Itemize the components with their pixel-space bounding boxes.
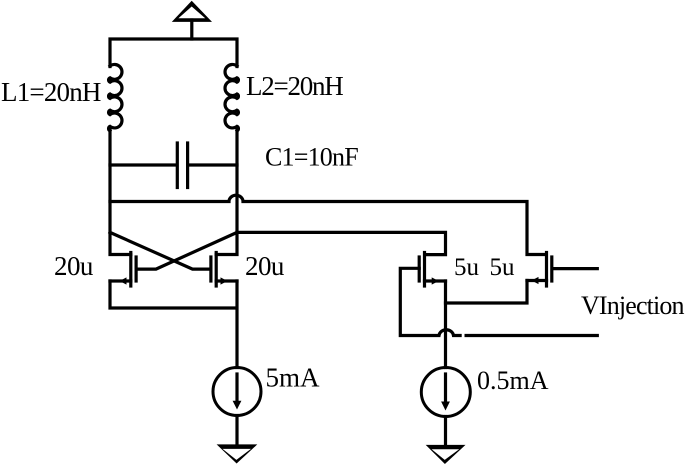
- svg-text:VInjection: VInjection: [581, 291, 685, 320]
- transistor M3: [419, 253, 445, 287]
- wire left rail: [110, 130, 131, 255]
- svg-text:20u: 20u: [54, 251, 94, 281]
- transistor M2: [211, 253, 237, 287]
- transistor M4: [527, 253, 552, 287]
- svg-text:L2=20nH: L2=20nH: [246, 71, 343, 101]
- wire cross-couple M2 gate to node Vp: [110, 232, 210, 269]
- current source I1 5mA: [213, 368, 261, 416]
- current source I2 0.5mA: [421, 368, 470, 417]
- wire M4 source to M3 source: [446, 281, 528, 304]
- svg-text:0.5mA: 0.5mA: [477, 366, 549, 395]
- ground left: [217, 444, 258, 463]
- wire M4 gate stub: [553, 267, 597, 270]
- wire top rail VDD: [110, 39, 237, 67]
- power VDD symbol: [172, 1, 212, 39]
- wire M3 source to tail I2: [444, 281, 447, 368]
- capacitor C1: [110, 143, 237, 188]
- wire I2 to ground: [444, 417, 447, 446]
- inductor L2: [225, 64, 238, 130]
- wire right rail: [216, 130, 237, 255]
- transistor M1: [110, 253, 136, 287]
- svg-text:20u: 20u: [245, 251, 285, 281]
- wire M3 gate to VInjection (hop over tail): [400, 268, 597, 335]
- svg-text:5u: 5u: [454, 254, 480, 281]
- wire node Vp to M4 drain (hop over right rail): [110, 195, 545, 254]
- svg-text:5u: 5u: [490, 254, 516, 281]
- svg-text:L1=20nH: L1=20nH: [1, 77, 101, 107]
- ground right: [426, 445, 466, 464]
- svg-text:C1=10nF: C1=10nF: [265, 143, 358, 172]
- wire node Vn to M3 drain: [237, 232, 446, 254]
- inductor L1: [109, 64, 122, 130]
- wire cross-couple M1 gate to node Vn: [137, 232, 237, 269]
- wire I1 to ground: [235, 416, 238, 446]
- svg-text:5mA: 5mA: [266, 363, 321, 393]
- wire sources of M1 M2 to tail: [110, 281, 237, 368]
